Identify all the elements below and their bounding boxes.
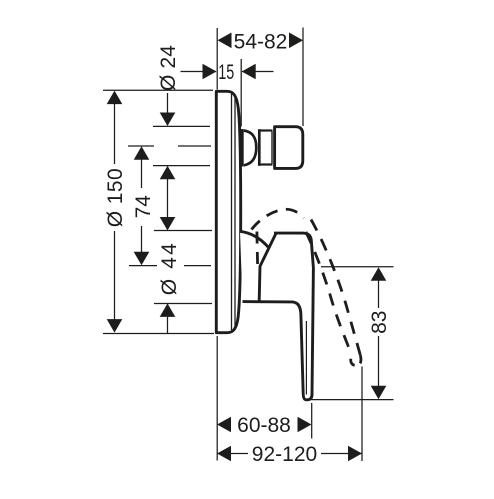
dashed lever near-plate edge (255, 232, 259, 266)
svg-text:Ø 24: Ø 24 (157, 45, 180, 91)
dim D24 top arrow shaft (167, 93, 169, 113)
dim D44 bottom shaft (167, 317, 169, 334)
dim line 15 left tail (181, 71, 217, 73)
arrow 83 top (371, 267, 387, 281)
arrow D24 top (160, 113, 176, 127)
svg-text:15: 15 (218, 61, 234, 84)
dashed lever tip (351, 355, 361, 365)
diverter knob collar bottom edge (259, 163, 273, 165)
arrow 15 left (203, 64, 217, 80)
arrow D44 bottom (160, 303, 176, 317)
arrow 92-120 left (217, 446, 231, 462)
label 92-120 white backing (248, 443, 321, 463)
arrow D150 top (107, 91, 123, 105)
diverter knob collar left edge (258, 129, 261, 166)
plate front face line 1 (231, 94, 233, 330)
dashed lever left edge (306, 232, 352, 356)
dim line 15 right tail (242, 71, 274, 73)
handle body white fill (240, 232, 313, 400)
svg-text:Ø 150: Ø 150 (104, 168, 127, 227)
dashed lever right edge (311, 220, 360, 356)
arrow 54-82 left (218, 33, 232, 49)
handle hub top curve (240, 231, 269, 248)
dim D24-D44 shared shaft (167, 179, 169, 218)
arrow 15 right (242, 64, 256, 80)
plate front face line 2 (234, 97, 236, 328)
extension line: knob top (for D24) (153, 125, 210, 127)
arrow 60-88 left (217, 417, 231, 433)
extension line: hub center right (for 83 top) (321, 266, 394, 268)
diverter knob collar right edge (271, 131, 273, 164)
hub centerline left segment (129, 265, 157, 267)
extension line: lever right x=311.5 (311, 403, 313, 439)
arrow D24 bottom (160, 166, 176, 180)
diverter knob flange (241, 129, 244, 167)
svg-text:83: 83 (368, 311, 391, 334)
dim D150 bottom shaft (114, 231, 116, 320)
arrow 74 top (134, 146, 150, 160)
dim 83 bottom shaft (378, 336, 380, 387)
extension line: lever tip (for 83 bottom) (310, 399, 394, 401)
handle hub left slant edge (259, 232, 276, 300)
extension line: knob right x=303 (302, 28, 304, 127)
arrow 54-82 right (289, 33, 303, 49)
extension line: hub top (for D44) (154, 230, 212, 232)
arrow 74 bottom (134, 252, 150, 266)
hub centerline right segment (184, 265, 211, 267)
dashed lever top arc (252, 209, 305, 229)
svg-text:92-120: 92-120 (252, 443, 317, 466)
knob centerline right segment (178, 145, 211, 147)
arrow D44 top (160, 217, 176, 231)
dim D150 top shaft (114, 103, 116, 164)
extension line: hub bottom (for D44) (154, 303, 212, 305)
lever blade inner thin line (305, 321, 307, 395)
arrow 60-88 right (298, 417, 312, 433)
lever blade outline and hub bottom (243, 233, 314, 400)
extension line: bottom left vertical x=217 (216, 336, 218, 461)
extension line: knob bottom (for D24) (153, 165, 210, 167)
extension line: plate front x=241 (240, 59, 242, 127)
svg-text:60-88: 60-88 (237, 414, 291, 437)
extension line: plate top (for D150) (103, 89, 213, 91)
svg-text:54-82: 54-82 (234, 31, 288, 54)
dim 83 top shaft (378, 280, 380, 308)
dim 74 top shaft (141, 159, 143, 188)
diverter knob taper bulge (244, 131, 256, 166)
diverter knob collar top edge (259, 129, 273, 131)
svg-text:74: 74 (132, 195, 155, 219)
diverter knob end cap (275, 127, 303, 169)
knob centerline (128, 145, 154, 147)
extension line: top left vertical x=217 (216, 28, 218, 90)
arrow D150 bottom (107, 319, 123, 333)
dim 74 bottom shaft (141, 226, 143, 253)
dim 92-120 line (217, 453, 362, 455)
extension line: plate bottom (for D150) (103, 333, 214, 335)
svg-text:Ø 44: Ø 44 (158, 243, 181, 295)
arrow 92-120 right (348, 446, 362, 462)
escutcheon plate outline (216, 91, 240, 332)
extension line: dashed tip x=362 (361, 367, 363, 462)
arrow 83 bottom (371, 386, 387, 400)
